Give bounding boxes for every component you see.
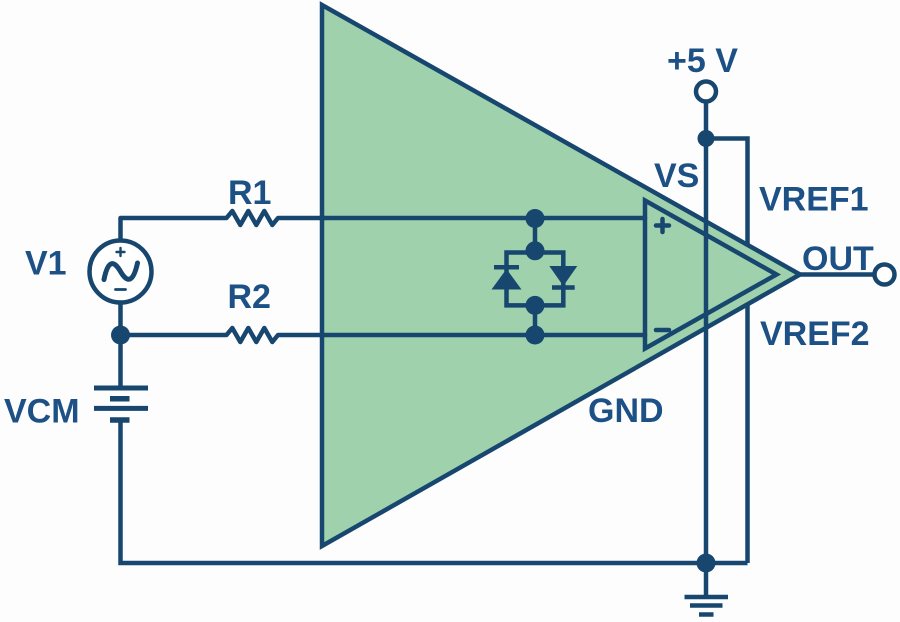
svg-text:R2: R2 (228, 278, 271, 316)
wire stub top node to clamp (533, 219, 538, 251)
svg-text:R1: R1 (228, 174, 271, 212)
op-amp body (large green triangle) (322, 5, 800, 546)
node at +5V branch (698, 130, 715, 147)
diode clamp network between inputs (492, 209, 578, 345)
source V1 (sine voltage source) (90, 241, 152, 303)
label VREF2 (760, 315, 870, 353)
diode D2 (anode up, cathode down) (549, 266, 577, 286)
label VS (654, 157, 699, 195)
label V1 (25, 245, 67, 283)
+5 V supply terminal (696, 82, 716, 102)
wire bottom rail from VCM to ground corner (121, 422, 748, 563)
svg-text:VREF1: VREF1 (759, 181, 869, 219)
label GND (588, 392, 664, 430)
label R1 (228, 174, 271, 212)
wire OUT from amplifier tip to output terminal (799, 272, 874, 277)
label +5 V (667, 42, 738, 80)
node at V1/VCM/R2 junction (111, 326, 130, 345)
diode D1 (anode down, cathode up) (494, 265, 519, 270)
node on - input wire (526, 326, 545, 345)
ground (685, 567, 729, 615)
battery VCM (94, 388, 148, 420)
op-amp U1 (inner amplifier triangle) (645, 201, 777, 349)
label VREF1 (759, 181, 869, 219)
clamp loop rectangle (507, 253, 564, 306)
svg-text:+5 V: +5 V (667, 42, 738, 80)
node on + input wire (526, 209, 545, 228)
minus input marking (656, 328, 669, 333)
label OUT (802, 240, 874, 278)
node at bottom ground junction (697, 554, 716, 573)
node bottom of clamp loop (526, 296, 545, 315)
svg-text:GND: GND (588, 392, 664, 430)
svg-text:V1: V1 (25, 245, 67, 283)
wire stub clamp to bottom node (533, 305, 538, 335)
svg-text:VCM: VCM (4, 393, 80, 431)
output terminal (875, 265, 895, 285)
wire VREF riser from +5V node down to bottom rail (passes under amplifier body) (706, 139, 748, 564)
svg-text:VREF2: VREF2 (760, 315, 870, 353)
node top of clamp loop (526, 241, 545, 260)
svg-text:OUT: OUT (802, 240, 874, 278)
wire noninverting input with resistor R1 (121, 211, 646, 241)
label VCM (4, 393, 80, 431)
svg-text:VS: VS (654, 157, 699, 195)
wire V1 bottom to node (118, 303, 123, 387)
wire VS supply line from +5V terminal down to ground rail (704, 103, 709, 564)
wire inverting input with resistor R2 (121, 328, 646, 342)
plus input marking (656, 219, 669, 232)
label R2 (228, 278, 271, 316)
